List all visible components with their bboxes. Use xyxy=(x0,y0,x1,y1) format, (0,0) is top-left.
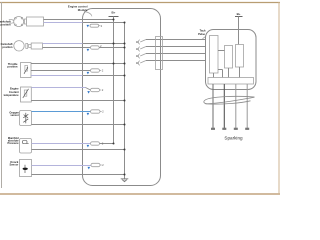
wire MAP ground xyxy=(32,149,125,151)
output pin 2 socket xyxy=(136,48,138,50)
piezo element inside knock xyxy=(24,165,26,173)
wire TPS ground (lavender) xyxy=(31,75,83,77)
wire ECM output 2 to igniter xyxy=(146,46,210,48)
camshaft sensor wheel xyxy=(14,41,24,51)
coolant temp sensor box xyxy=(21,87,32,102)
wire ECM output 3 to igniter xyxy=(146,53,210,55)
leader line Tach label xyxy=(203,36,207,39)
coil lead squiggle xyxy=(204,96,255,104)
output pin 1 socket xyxy=(136,41,138,43)
coil primary winding xyxy=(225,46,233,69)
knock sensor box xyxy=(20,160,32,177)
svg-text:B+: B+ xyxy=(112,10,116,14)
input marker cam (blue arrow) xyxy=(87,49,90,52)
connector block J1 xyxy=(156,37,163,70)
igniter driver module xyxy=(210,36,219,74)
resistor R4 xyxy=(91,88,100,91)
crankshaft sensor body xyxy=(27,17,44,26)
label oxygen sensor xyxy=(9,110,19,117)
spark plug tip 2 xyxy=(222,128,226,130)
resistor R2 xyxy=(91,46,100,49)
label throttle position xyxy=(7,62,18,69)
page border left xyxy=(1,2,3,188)
svg-text:Sensor: Sensor xyxy=(10,162,19,166)
wire TPS vref xyxy=(31,63,125,65)
pressure element inside MAP xyxy=(22,140,27,143)
resistor R6 xyxy=(91,142,100,145)
camshaft sensor plug xyxy=(29,44,32,47)
wire R2 to bus xyxy=(99,47,124,49)
wire cam signal B xyxy=(43,47,91,49)
label Tach Pulse xyxy=(198,28,206,36)
wire MAP signal (lavender) xyxy=(32,143,91,145)
svg-text:position: position xyxy=(2,45,13,49)
resistor R1 xyxy=(90,24,99,27)
svg-text:sensor: sensor xyxy=(10,113,19,117)
junction dots xyxy=(113,19,126,176)
label camshaft position xyxy=(1,42,13,49)
svg-text:position: position xyxy=(7,65,18,69)
resistor R5 xyxy=(91,110,101,113)
resistor R3 xyxy=(91,69,100,72)
wire crank signal A xyxy=(44,19,114,21)
input marker O2 (blue arrow) xyxy=(87,113,90,116)
wire secondary bottom xyxy=(239,67,241,78)
wire ECT signal (lavender) xyxy=(31,87,85,89)
svg-text:Module: Module xyxy=(78,8,88,12)
wire ECM output 4 to igniter xyxy=(146,60,210,62)
wire primary bottom xyxy=(228,68,230,78)
oxygen sensor box xyxy=(20,111,32,126)
wire ECT ground xyxy=(31,100,124,102)
input marker MAP (blue arrow) xyxy=(87,145,90,148)
label engine coolant temperature xyxy=(4,87,20,97)
wire O2 signal (blue) xyxy=(32,111,91,113)
svg-text:Sparking: Sparking xyxy=(224,136,243,141)
page border top xyxy=(0,2,280,4)
leader line ECM label xyxy=(84,12,92,17)
input marker crank (blue arrow) xyxy=(87,25,90,28)
output pin 4 socket xyxy=(136,62,138,64)
wire ECT jog xyxy=(86,88,91,91)
crankshaft reluctor wheel xyxy=(14,17,24,27)
svg-text:Pulse: Pulse xyxy=(198,32,205,36)
wire O2 ground xyxy=(32,124,125,126)
wire driver bottom xyxy=(213,73,215,78)
MAP sensor box xyxy=(20,139,32,154)
label Engine control Module xyxy=(68,5,88,12)
output pin 3 socket xyxy=(136,55,138,57)
wire TPS wiper xyxy=(31,70,91,72)
wire TPS ground inside ECM xyxy=(83,75,125,77)
crankshaft sensor coupler xyxy=(25,19,27,24)
coil secondary winding xyxy=(236,45,244,68)
svg-text:Pressure: Pressure xyxy=(7,141,19,145)
spark plug tip 4 xyxy=(245,128,249,130)
label crankshaft position xyxy=(0,19,11,26)
B+ feed wire igniter xyxy=(238,17,240,45)
spark plug tip 3 xyxy=(234,128,238,130)
spark plug wire 3 xyxy=(235,84,237,128)
svg-text:temperature: temperature xyxy=(4,93,20,97)
camshaft sensor coupler xyxy=(26,43,28,48)
wire crank signal B (lavender) xyxy=(44,22,83,24)
B+ bus wire xyxy=(113,17,115,144)
page border bottom xyxy=(0,193,280,195)
wire knock signal (lavender) xyxy=(32,165,92,167)
spark plug tip 1 xyxy=(211,128,215,130)
svg-text:Tach: Tach xyxy=(200,28,206,32)
label manifold absolute pressure xyxy=(7,136,19,145)
thermistor inside ECT xyxy=(24,90,27,96)
page border right xyxy=(278,2,280,194)
lambda probe symbol inside O2 xyxy=(25,113,27,124)
input marker TPS (blue arrow) xyxy=(87,72,90,75)
engine control module U1 xyxy=(83,9,161,186)
potentiometer inside TPS xyxy=(25,65,28,71)
resistor R7 xyxy=(91,163,100,166)
label knock sensor xyxy=(10,160,19,167)
distributor bar xyxy=(208,78,254,85)
wire ECM output 1 to igniter xyxy=(146,39,210,41)
wire driver stub to bar xyxy=(218,69,223,71)
wire cam signal A inside ECM xyxy=(83,43,125,45)
input marker knock (blue arrow) xyxy=(88,167,91,170)
wire crank signal B inside ECM xyxy=(83,22,125,24)
ground symbol ECM xyxy=(121,179,129,182)
spark plug wire 2 xyxy=(223,84,225,128)
igniter and coil assembly box xyxy=(206,30,257,90)
spark plug wire 4 xyxy=(246,84,248,128)
wire knock ground xyxy=(32,174,125,176)
crankshaft sensor pickup fork xyxy=(9,20,14,24)
camshaft sensor body xyxy=(31,43,42,49)
svg-text:B+: B+ xyxy=(237,12,241,16)
input marker ECT (blue arrow) xyxy=(87,91,90,94)
signal bus wire xyxy=(124,23,126,179)
wire cam signal A (lavender) xyxy=(43,43,83,45)
spark plug wire 1 xyxy=(212,84,214,128)
wire driver to primary xyxy=(218,50,225,52)
throttle position sensor box xyxy=(21,63,32,78)
